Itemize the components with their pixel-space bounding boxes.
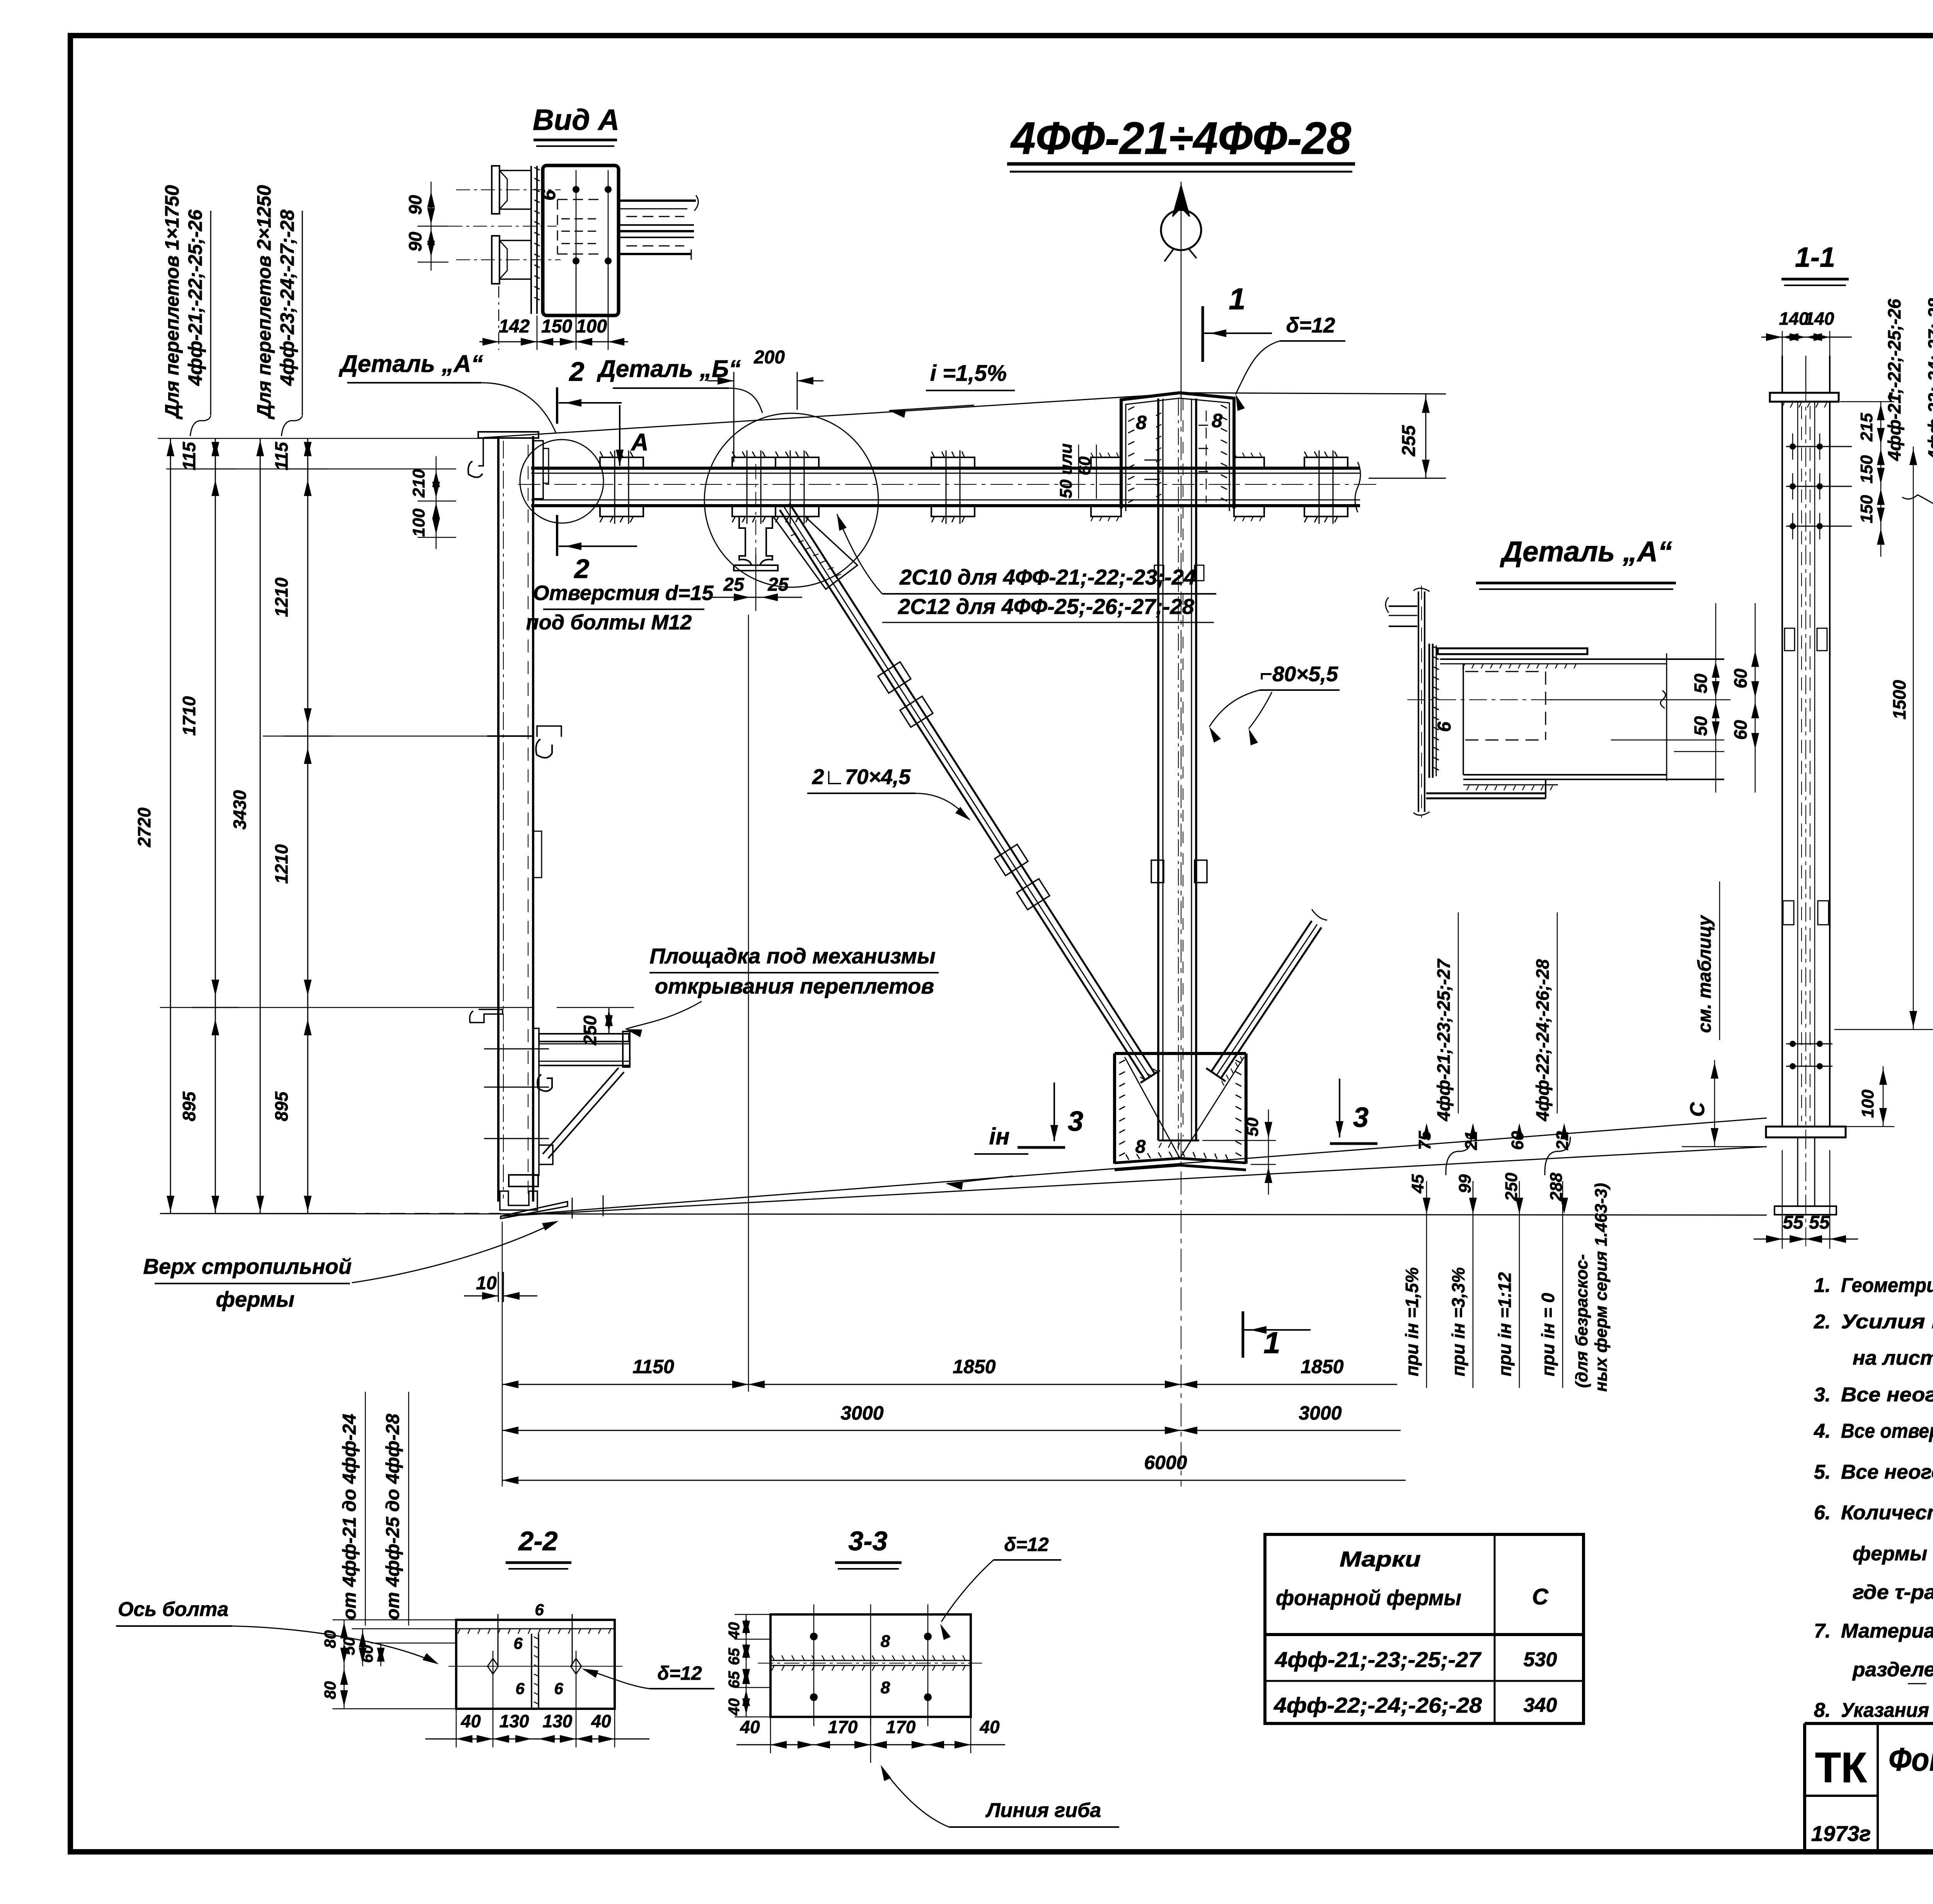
bottom dimension chains 1150/1850/1850 3000/3000 6000: [502, 615, 1406, 1486]
svg-text:1850: 1850: [1301, 1356, 1343, 1377]
truss vertical centreline: [1181, 398, 1181, 1486]
left lantern post (elevation): [468, 432, 561, 1202]
Деталь А drawing: [1386, 586, 1730, 818]
svg-text:Для переплетов 1×1750: Для переплетов 1×1750: [161, 185, 183, 419]
svg-text:60: 60: [358, 1645, 376, 1663]
channel designation labels 2С10/2С12: [837, 514, 1216, 622]
svg-text:Вид А: Вид А: [533, 104, 619, 136]
svg-text:1210: 1210: [271, 844, 291, 884]
svg-text:(для безраскос-: (для безраскос-: [1572, 1254, 1591, 1388]
svg-text:130: 130: [543, 1711, 573, 1731]
svg-text:40: 40: [979, 1717, 1000, 1737]
svg-text:60: 60: [1075, 456, 1094, 475]
svg-text:4фф-23;-24;-27;-28: 4фф-23;-24;-27;-28: [1924, 298, 1933, 460]
svg-text:4ФФ-21÷4ФФ-28: 4ФФ-21÷4ФФ-28: [1010, 113, 1351, 164]
monorail hanger I-beam below chord: [734, 464, 778, 584]
svg-text:ТК: ТК: [1815, 1744, 1867, 1791]
Вид А dims 90 90: [405, 182, 448, 271]
svg-text:Для переплетов 2×1250: Для переплетов 2×1250: [253, 185, 275, 419]
left dimension chains: [134, 438, 501, 1214]
svg-text:1150: 1150: [632, 1356, 674, 1377]
section 3-3 dims: [726, 1614, 1005, 1753]
section 2-2 plate: [448, 1601, 622, 1709]
svg-text:2720: 2720: [134, 807, 154, 847]
svg-text:при iн =1,5%: при iн =1,5%: [1402, 1267, 1422, 1376]
Деталь А title: [1476, 535, 1676, 589]
section marker 3 right: [1330, 1079, 1377, 1144]
svg-text:895: 895: [271, 1091, 291, 1121]
svg-text:i =1,5%: i =1,5%: [930, 361, 1007, 386]
Вид А drawing: monorail end profiles: [448, 166, 561, 284]
svg-text:40: 40: [740, 1717, 760, 1737]
svg-text:6: 6: [515, 1679, 525, 1698]
section marker 1 bottom: [1243, 1311, 1311, 1360]
section marker 1 top: [1203, 282, 1272, 362]
Деталь А callout label: [338, 351, 556, 433]
svg-text:1850: 1850: [953, 1356, 995, 1377]
Ось болта label: [116, 1598, 439, 1664]
iн label: [946, 1123, 1028, 1190]
short right diagonal (cut): [1206, 909, 1327, 1086]
dim 255 at right break: [1369, 394, 1446, 478]
detail circle Б: [704, 413, 878, 587]
view direction arrow А: [616, 405, 648, 466]
svg-text:170: 170: [828, 1717, 858, 1737]
примечания notes: [1814, 1230, 1933, 1724]
svg-text:50: 50: [1691, 673, 1711, 694]
svg-text:от 4фф-21 до 4фф-24: от 4фф-21 до 4фф-24: [339, 1414, 360, 1620]
svg-text:·: ·: [1887, 381, 1894, 407]
svg-text:3000: 3000: [1299, 1402, 1342, 1424]
svg-text:2-2: 2-2: [518, 1526, 557, 1556]
svg-text:50: 50: [1243, 1117, 1262, 1136]
svg-text:250: 250: [580, 1015, 600, 1045]
svg-text:65: 65: [726, 1671, 743, 1688]
lower chord slope fan lines: [501, 1118, 1767, 1216]
svg-text:4фф-22;-24;-26;-28: 4фф-22;-24;-26;-28: [1273, 1693, 1482, 1717]
section marker 2 bottom: [557, 515, 637, 584]
Деталь А dims 50/50 60/60: [1611, 603, 1759, 793]
svg-text:3-3: 3-3: [848, 1526, 887, 1556]
section 1-1 title: [1781, 242, 1849, 285]
svg-text:Геометрические схемы фонарны: Геометрические схемы фонарных ферм на ли…: [1841, 1274, 1933, 1297]
svg-text:40: 40: [591, 1711, 611, 1731]
diagonal member 2L70x4,5: [773, 503, 1160, 1083]
svg-text:фермы: фермы: [216, 1287, 294, 1311]
svg-text:150: 150: [1857, 455, 1876, 484]
section 1-1 column: [1766, 356, 1852, 1249]
svg-text:255: 255: [1399, 425, 1419, 457]
svg-text:Верх стропильной: Верх стропильной: [143, 1254, 351, 1278]
svg-text:142: 142: [499, 316, 530, 337]
svg-text:разделе V пояснительной зап: разделе V пояснительной записки.: [1852, 1659, 1933, 1681]
service platform bracket: [160, 1007, 630, 1219]
svg-text:4фф-22;-24;-26;-28: 4фф-22;-24;-26;-28: [1532, 959, 1553, 1122]
svg-text:где τ-радиус инерции одного: где τ-радиус инерции одного уголка (для …: [1853, 1581, 1933, 1604]
svg-text:115: 115: [271, 441, 291, 470]
svg-text:1973г: 1973г: [1811, 1821, 1871, 1846]
section marker 2 top: [557, 356, 622, 424]
labels от 4фф-21 до 4фф-24: [339, 1392, 365, 1626]
svg-text:5.: 5.: [1814, 1461, 1831, 1483]
svg-text:40: 40: [726, 1698, 743, 1716]
svg-text:2.: 2.: [1814, 1311, 1831, 1333]
svg-text:100: 100: [1858, 1089, 1877, 1118]
svg-text:Материал конструкций- сталь 3: Материал конструкций- сталь 3. Марки ста…: [1841, 1620, 1933, 1642]
svg-text:65: 65: [726, 1648, 743, 1665]
svg-text:7.: 7.: [1814, 1620, 1831, 1642]
svg-text:8.: 8.: [1814, 1699, 1831, 1722]
svg-text:55: 55: [1809, 1212, 1830, 1233]
detail circle А: [520, 440, 603, 523]
svg-text:3000: 3000: [840, 1402, 883, 1424]
2-2 δ=12 label: [582, 1662, 714, 1689]
svg-text:С: С: [1686, 1102, 1709, 1117]
svg-text:1.: 1.: [1814, 1274, 1831, 1297]
Верх стропильной фермы label: [143, 1221, 559, 1311]
svg-text:6: 6: [538, 189, 559, 201]
svg-text:1: 1: [1229, 282, 1245, 316]
roof slope line left i=1.5%: [483, 394, 1180, 438]
dim 25 25: [709, 555, 802, 611]
section 3-3 title: [835, 1526, 902, 1569]
svg-text:3.: 3.: [1814, 1384, 1831, 1406]
svg-text:4фф-21;-22;-25;-26: 4фф-21;-22;-25;-26: [184, 209, 206, 386]
svg-text:⌐80×5,5: ⌐80×5,5: [1260, 662, 1338, 686]
svg-text:55: 55: [1783, 1212, 1804, 1233]
Отверстия д=15 label: [526, 581, 714, 634]
section 2-2 title: [506, 1526, 571, 1569]
diagonal section label 2∟70×4,5: [807, 765, 970, 820]
svg-text:3: 3: [1353, 1102, 1369, 1133]
svg-text:8: 8: [1136, 412, 1147, 433]
svg-text:А: А: [631, 429, 649, 456]
svg-text:250: 250: [1502, 1173, 1521, 1202]
roof slope line right: [1183, 393, 1446, 394]
top chord member: [518, 462, 1376, 512]
section 1-1 dims: [1682, 298, 1933, 1249]
svg-text:100: 100: [409, 508, 428, 537]
svg-text:1710: 1710: [179, 696, 199, 736]
svg-text:iн: iн: [989, 1123, 1010, 1149]
svg-text:40: 40: [460, 1711, 481, 1731]
svg-text:1500: 1500: [1889, 680, 1909, 719]
svg-text:открывания переплетов: открывания переплетов: [655, 974, 934, 998]
svg-text:Количество соединительных пр: Количество соединительных прокладок в ра…: [1841, 1502, 1933, 1524]
svg-text:25: 25: [767, 574, 789, 595]
svg-text:80: 80: [321, 1630, 339, 1648]
svg-text:см. таблицу: см. таблицу: [1694, 915, 1715, 1033]
svg-text:170: 170: [886, 1717, 916, 1737]
svg-text:δ=12: δ=12: [657, 1662, 702, 1684]
svg-text:Усилия в элементах указаны: Усилия в элементах указаны в сортаменте …: [1841, 1311, 1933, 1333]
svg-text:6: 6: [554, 1679, 563, 1698]
svg-text:4фф-21;-22;-25;-26: 4фф-21;-22;-25;-26: [1884, 299, 1904, 461]
3-3 δ=12 label: [940, 1534, 1061, 1640]
svg-text:δ=12: δ=12: [1004, 1534, 1049, 1555]
svg-text:8: 8: [1135, 1137, 1146, 1157]
title block: [1805, 1723, 1933, 1853]
svg-text:60: 60: [1730, 720, 1751, 740]
svg-text:Площадка под механизмы: Площадка под механизмы: [649, 944, 936, 968]
svg-text:Указания по сварке приведены: Указания по сварке приведены в разделе V…: [1841, 1699, 1933, 1722]
svg-text:200: 200: [753, 347, 785, 368]
Вид А drawing: chord going right: [619, 195, 698, 260]
svg-text:8: 8: [1212, 410, 1222, 431]
svg-text:Марки: Марки: [1340, 1547, 1421, 1571]
svg-text:150: 150: [1857, 495, 1876, 523]
svg-text:6.: 6.: [1814, 1502, 1831, 1524]
svg-text:ных ферм серия 1.463-3): ных ферм серия 1.463-3): [1592, 1183, 1611, 1392]
svg-text:6: 6: [513, 1634, 523, 1652]
i=1,5% label: [889, 361, 1015, 418]
svg-text:8: 8: [881, 1632, 890, 1651]
svg-text:Деталь „А“: Деталь „А“: [1500, 535, 1672, 568]
svg-text:Деталь „А“: Деталь „А“: [338, 351, 483, 377]
labels от 4фф-25 до 4фф-28: [383, 1392, 409, 1626]
svg-text:4фф-23;-24;-27;-28: 4фф-23;-24;-27;-28: [276, 210, 298, 386]
dim 250 platform: [557, 1007, 634, 1045]
svg-text:Все неоговоренные листовые: Все неоговоренные листовые детали приним…: [1841, 1384, 1933, 1406]
svg-text:288: 288: [1547, 1173, 1566, 1202]
svg-text:от 4фф-25 до 4фф-28: от 4фф-25 до 4фф-28: [383, 1414, 403, 1620]
roof centre mark symbol: [1161, 182, 1201, 398]
Деталь Б callout label: [597, 356, 762, 413]
svg-text:δ=12: δ=12: [1286, 313, 1335, 337]
svg-text:6: 6: [1434, 721, 1455, 732]
svg-text:С: С: [1532, 1584, 1549, 1609]
Монорельс note: [1902, 495, 1933, 566]
label Для переплетов 2×1250: [253, 185, 302, 436]
svg-text:130: 130: [499, 1711, 529, 1731]
svg-text:4фф-21;-23;-25;-27: 4фф-21;-23;-25;-27: [1434, 958, 1454, 1122]
svg-text:фонарной фермы: фонарной фермы: [1276, 1585, 1461, 1610]
svg-text:150: 150: [541, 316, 572, 337]
svg-text:4фф-21;-23;-25;-27: 4фф-21;-23;-25;-27: [1275, 1647, 1482, 1672]
section 3-3 plate: [758, 1604, 982, 1726]
Вид А dims 142 150 100: [479, 267, 628, 350]
svg-text:Линия гиба: Линия гиба: [985, 1799, 1101, 1822]
svg-text:при iн = 0: при iн = 0: [1538, 1293, 1558, 1376]
svg-text:2210: 2210: [1930, 680, 1933, 720]
label Для переплетов 1×1750: [161, 185, 211, 436]
vertical post of lantern truss: [1151, 399, 1207, 1158]
svg-text:90: 90: [405, 195, 425, 215]
svg-text:40: 40: [726, 1622, 743, 1640]
svg-text:2: 2: [569, 356, 585, 387]
dim 50 или 60 labels: [1057, 443, 1096, 499]
svg-text:100: 100: [576, 316, 607, 337]
svg-text:90: 90: [405, 232, 425, 252]
svg-text:50 или: 50 или: [1057, 443, 1076, 498]
marks table: [1265, 1534, 1584, 1723]
section marker 3 left: [1018, 1082, 1083, 1147]
svg-text:45: 45: [1408, 1174, 1427, 1193]
svg-text:60: 60: [1730, 668, 1751, 689]
dim 210 / 100 at column top: [409, 456, 456, 549]
Вид А drawing: gusset plate with bolts: [531, 165, 619, 342]
svg-text:Отверстия d=15: Отверстия d=15: [533, 581, 714, 605]
svg-text:Все неоговоренные швы прини: Все неоговоренные швы принимать толщиной…: [1841, 1461, 1933, 1483]
dim 10 at column base: [464, 1272, 537, 1302]
svg-text:на листе 7.: на листе 7.: [1853, 1347, 1933, 1369]
svg-text:530: 530: [1524, 1648, 1557, 1671]
svg-text:1: 1: [1263, 1326, 1280, 1360]
svg-text:140: 140: [1805, 309, 1834, 329]
chord splice bolt clusters: [600, 450, 643, 524]
svg-text:4.: 4.: [1814, 1420, 1831, 1442]
bottom gusset plate: [1115, 1053, 1276, 1195]
svg-text:Фонарные фермы от 4ФФ-21 до: Фонарные фермы от 4ФФ-21 до 4ФФ-28: [1889, 1741, 1933, 1778]
svg-text:3: 3: [1068, 1106, 1083, 1137]
svg-text:6000: 6000: [1144, 1452, 1187, 1473]
svg-text:1-1: 1-1: [1795, 242, 1835, 273]
svg-text:8: 8: [881, 1678, 890, 1697]
Площадка label: [626, 944, 939, 1037]
svg-text:2: 2: [574, 554, 590, 584]
svg-text:25: 25: [723, 574, 745, 595]
main title 4ФФ-21÷4ФФ-28: [1007, 113, 1355, 172]
svg-text:340: 340: [1524, 1694, 1557, 1716]
svg-text:при iн =1:12: при iн =1:12: [1495, 1272, 1515, 1376]
svg-text:115: 115: [179, 441, 199, 470]
svg-text:10: 10: [476, 1273, 497, 1294]
svg-text:Все отверстия d=23 под болт: Все отверстия d=23 под болты нормальной …: [1841, 1420, 1933, 1442]
svg-text:215: 215: [1857, 413, 1876, 442]
д=12 leader label: [1236, 313, 1345, 411]
section 2-2 dims: [321, 1620, 649, 1747]
svg-text:50: 50: [340, 1637, 358, 1655]
Вид А view title: [533, 104, 619, 146]
dim 200 (top): [707, 347, 823, 462]
svg-text:фермы показано условно. Шаг: фермы показано условно. Шаг этих проклад…: [1853, 1543, 1933, 1565]
ridge gusset plate: [1091, 393, 1264, 521]
post section label 80x5,5: [1209, 662, 1340, 745]
svg-text:Ось болта: Ось болта: [118, 1598, 228, 1621]
svg-text:210: 210: [409, 469, 428, 498]
svg-text:50: 50: [1691, 716, 1711, 736]
svg-text:под болты М12: под болты М12: [526, 611, 692, 634]
Линия гиба label: [871, 1717, 1119, 1827]
svg-text:2С12 для 4ФФ-25;-26;-27;-28: 2С12 для 4ФФ-25;-26;-27;-28: [898, 594, 1195, 619]
svg-text:99: 99: [1456, 1174, 1474, 1193]
svg-text:2С10 для 4ФФ-21;-22;-23;-24: 2С10 для 4ФФ-21;-22;-23;-24: [899, 565, 1196, 589]
svg-text:895: 895: [179, 1091, 199, 1121]
svg-text:3430: 3430: [230, 790, 250, 830]
svg-text:при iн =3,3%: при iн =3,3%: [1448, 1267, 1468, 1376]
svg-text:80: 80: [321, 1681, 339, 1699]
svg-text:1210: 1210: [271, 577, 291, 617]
при iн labels cluster: [1402, 912, 1611, 1392]
svg-text:2∟70×4,5: 2∟70×4,5: [812, 765, 911, 789]
svg-text:6: 6: [535, 1601, 544, 1619]
